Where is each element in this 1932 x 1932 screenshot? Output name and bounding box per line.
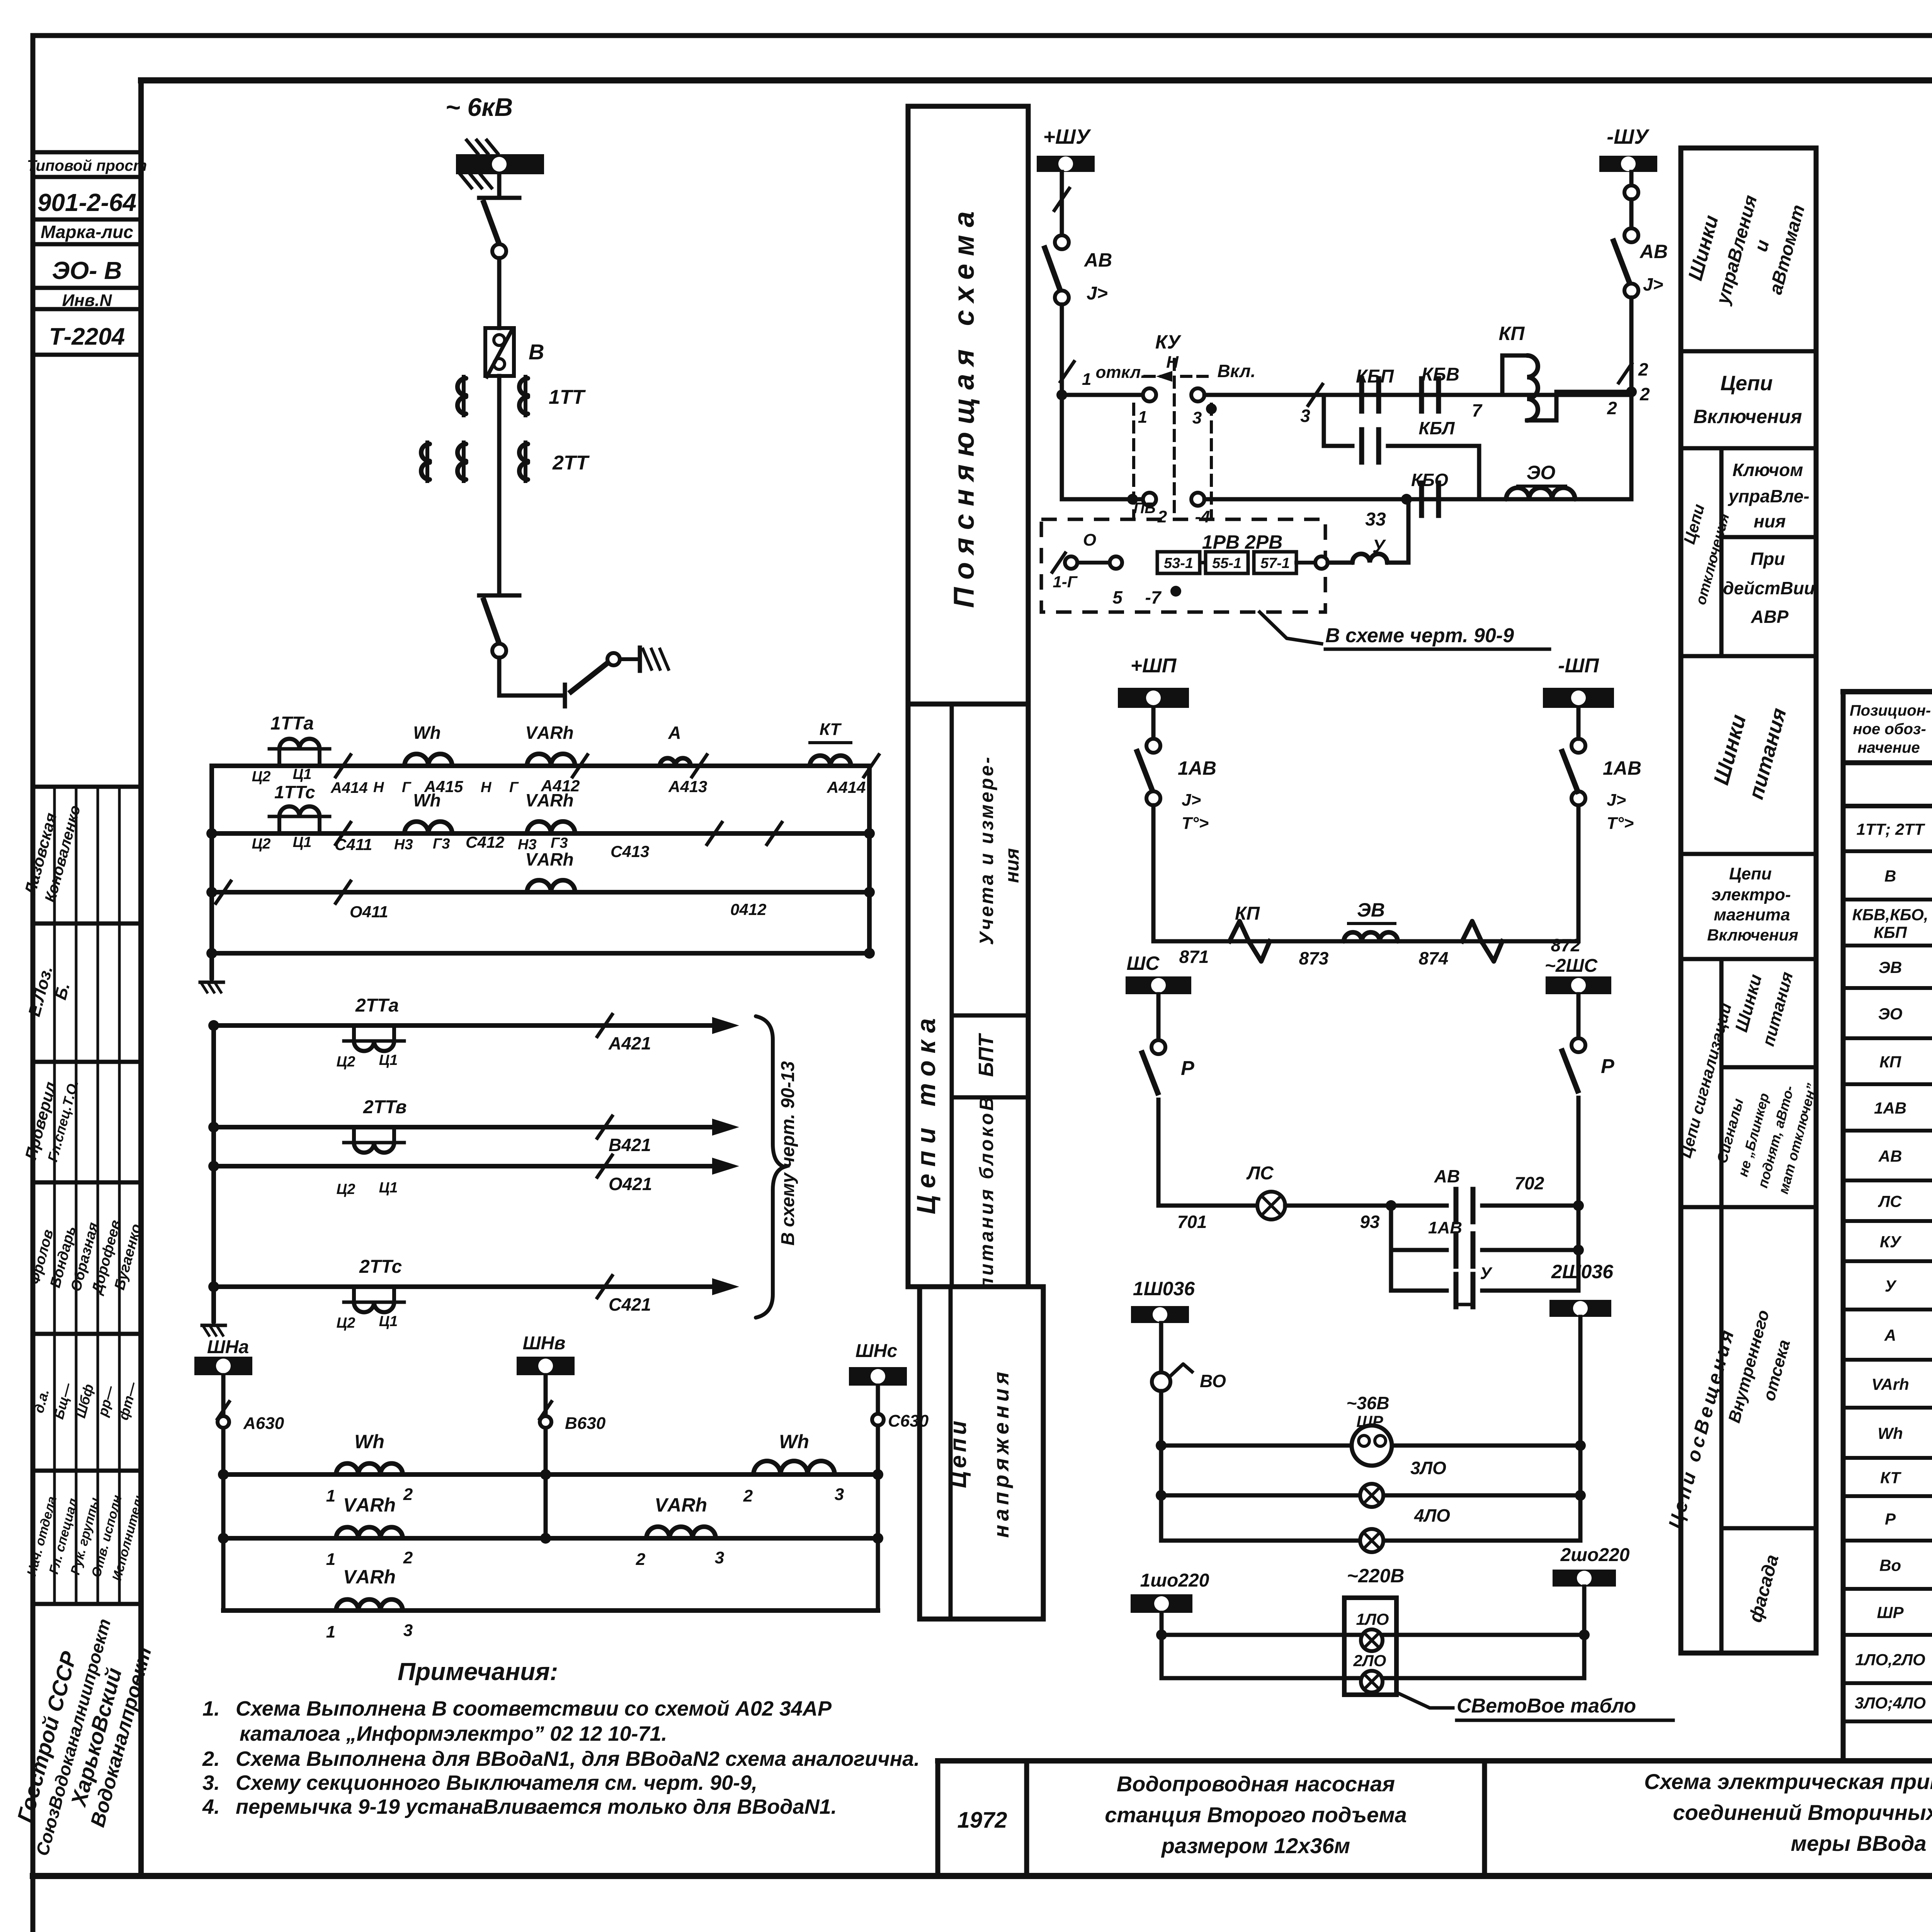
svg-text:А630: А630: [243, 1414, 284, 1433]
svg-text:2ТТс: 2ТТс: [359, 1257, 402, 1277]
svg-text:1: 1: [326, 1550, 335, 1569]
svg-text:ШНв: ШНв: [523, 1333, 566, 1354]
svg-text:При: При: [1750, 549, 1785, 569]
svg-text:872: 872: [1551, 935, 1581, 955]
svg-text:С630: С630: [888, 1412, 929, 1430]
svg-text:ЭО: ЭО: [1527, 462, 1556, 483]
svg-text:1ЛО: 1ЛО: [1356, 1610, 1389, 1628]
svg-text:ЭО: ЭО: [1878, 1005, 1903, 1023]
svg-text:Водопроводная насосная: Водопроводная насосная: [1117, 1772, 1395, 1796]
svg-text:ЭО- В: ЭО- В: [52, 257, 122, 284]
svg-text:~2ШС: ~2ШС: [1545, 956, 1598, 976]
svg-text:4.: 4.: [202, 1795, 220, 1818]
svg-text:Wh: Wh: [354, 1431, 384, 1452]
svg-text:КП: КП: [1235, 903, 1260, 924]
svg-text:2.: 2.: [202, 1747, 220, 1770]
svg-text:КТ: КТ: [1880, 1469, 1901, 1487]
svg-text:напряжения: напряжения: [989, 1368, 1013, 1538]
svg-text:Wh: Wh: [779, 1431, 809, 1452]
svg-text:-ШП: -ШП: [1558, 655, 1599, 677]
svg-text:В: В: [1884, 867, 1896, 885]
svg-text:VArh: VArh: [1871, 1375, 1909, 1393]
svg-text:2: 2: [403, 1548, 413, 1567]
svg-text:перемычка 9-19 устанаВливает: перемычка 9-19 устанаВливается только дл…: [236, 1795, 837, 1818]
svg-text:J>: J>: [1182, 791, 1201, 810]
svg-text:0412: 0412: [730, 900, 766, 918]
svg-text:3: 3: [403, 1621, 413, 1640]
svg-text:4ЛО: 4ЛО: [1414, 1505, 1450, 1526]
svg-text:2: 2: [1639, 384, 1650, 404]
svg-text:1972: 1972: [957, 1808, 1007, 1833]
svg-text:КП: КП: [1879, 1053, 1901, 1071]
svg-text:VАRh: VАRh: [525, 723, 573, 743]
svg-text:В: В: [529, 340, 544, 364]
svg-text:Схему секционного Выключател: Схему секционного Выключателя см. черт. …: [236, 1771, 757, 1794]
svg-text:~220В: ~220В: [1347, 1565, 1405, 1587]
svg-text:J>: J>: [1087, 283, 1108, 304]
svg-text:3.: 3.: [202, 1771, 220, 1794]
svg-text:ВО: ВО: [1200, 1371, 1226, 1391]
svg-text:1: 1: [1082, 370, 1091, 389]
svg-text:В схеме черт. 90-9: В схеме черт. 90-9: [1325, 624, 1514, 647]
svg-text:КБВ: КБВ: [1422, 364, 1459, 385]
svg-text:АВ: АВ: [1639, 241, 1668, 262]
svg-text:А413: А413: [668, 777, 707, 796]
svg-text:С421: С421: [609, 1294, 651, 1315]
svg-text:2ТТа: 2ТТа: [355, 995, 399, 1016]
svg-text:ния: ния: [1001, 848, 1023, 883]
svg-text:БПТ: БПТ: [975, 1033, 998, 1077]
svg-text:ШР: ШР: [1877, 1604, 1904, 1622]
svg-text:А421: А421: [608, 1033, 651, 1053]
svg-text:Р: Р: [1181, 1057, 1194, 1080]
svg-text:Ц1: Ц1: [379, 1313, 398, 1330]
svg-text:АВ: АВ: [1434, 1166, 1460, 1186]
svg-text:питания блокоВ: питания блокоВ: [976, 1095, 997, 1290]
svg-text:1Ш036: 1Ш036: [1133, 1278, 1195, 1299]
svg-text:Р: Р: [1885, 1510, 1896, 1528]
svg-text:1: 1: [326, 1622, 335, 1641]
svg-text:Т-2204: Т-2204: [49, 323, 125, 350]
svg-text:1ТТс: 1ТТс: [274, 782, 315, 802]
svg-text:У: У: [1885, 1277, 1897, 1295]
svg-text:КБЛ: КБЛ: [1418, 418, 1455, 438]
svg-text:Типовой прост: Типовой прост: [27, 157, 147, 174]
svg-text:ШС: ШС: [1126, 952, 1160, 974]
svg-text:874: 874: [1419, 948, 1449, 968]
svg-text:Н: Н: [481, 779, 492, 796]
svg-text:С412: С412: [466, 833, 504, 851]
svg-text:О: О: [1083, 531, 1096, 549]
svg-text:Ц1: Ц1: [293, 834, 312, 850]
svg-text:2: 2: [1607, 398, 1617, 418]
svg-text:VАRh: VАRh: [525, 790, 573, 810]
svg-text:Цепи: Цепи: [1720, 372, 1772, 395]
svg-text:Ц1: Ц1: [379, 1052, 398, 1068]
svg-text:ШНс: ШНс: [855, 1341, 897, 1361]
svg-text:магнита: магнита: [1714, 905, 1790, 924]
svg-text:2ТТв: 2ТТв: [363, 1097, 407, 1117]
svg-text:Ц1: Ц1: [379, 1180, 398, 1196]
svg-text:J>: J>: [1607, 791, 1626, 810]
svg-text:Ц1: Ц1: [293, 766, 312, 782]
svg-text:~ 6кВ: ~ 6кВ: [446, 93, 513, 121]
svg-text:3ЛО: 3ЛО: [1410, 1458, 1446, 1478]
svg-text:О411: О411: [350, 903, 388, 921]
svg-text:А: А: [1884, 1326, 1896, 1344]
svg-text:А414: А414: [827, 778, 866, 796]
svg-text:В схему черт. 90-13: В схему черт. 90-13: [778, 1061, 798, 1246]
svg-text:1РВ 2РВ: 1РВ 2РВ: [1202, 531, 1282, 553]
svg-text:Схема электрическая принципи: Схема электрическая принципиальная: [1644, 1769, 1932, 1794]
svg-text:-4: -4: [1195, 507, 1210, 526]
svg-text:А414: А414: [330, 779, 368, 796]
svg-text:2: 2: [636, 1550, 646, 1569]
svg-text:Ц2: Ц2: [337, 1054, 355, 1070]
svg-text:Марка-лис: Марка-лис: [41, 222, 133, 242]
svg-text:53-1: 53-1: [1164, 555, 1193, 571]
svg-text:Цепи: Цепи: [945, 1418, 971, 1488]
svg-text:упраВле-: упраВле-: [1728, 486, 1810, 506]
svg-text:57-1: 57-1: [1260, 555, 1290, 571]
svg-text:ЛС: ЛС: [1246, 1163, 1274, 1184]
svg-text:Цепи: Цепи: [1729, 864, 1772, 883]
svg-text:Wh: Wh: [1878, 1424, 1903, 1442]
svg-text:В630: В630: [565, 1414, 606, 1433]
svg-text:1АВ: 1АВ: [1874, 1099, 1906, 1117]
svg-text:2: 2: [403, 1485, 413, 1504]
svg-text:У: У: [1480, 1264, 1493, 1283]
svg-text:33: 33: [1365, 509, 1386, 530]
svg-text:1: 1: [326, 1486, 335, 1505]
svg-text:Н: Н: [1166, 353, 1179, 372]
svg-text:ПБ: ПБ: [1133, 500, 1155, 517]
svg-text:ШНа: ШНа: [207, 1337, 249, 1357]
svg-text:Схема Выполнена В соответств: Схема Выполнена В соответствии со схемой…: [236, 1697, 832, 1720]
svg-text:КБО: КБО: [1411, 470, 1448, 490]
svg-text:1ТТ; 2ТТ: 1ТТ; 2ТТ: [1857, 820, 1925, 838]
svg-text:901-2-64: 901-2-64: [37, 189, 136, 216]
svg-text:1.: 1.: [202, 1697, 220, 1720]
svg-text:Н: Н: [373, 779, 384, 796]
svg-text:КУ: КУ: [1880, 1233, 1902, 1251]
svg-text:Т°>: Т°>: [1182, 814, 1209, 833]
svg-text:3: 3: [715, 1548, 724, 1567]
svg-text:АВ: АВ: [1878, 1147, 1902, 1165]
svg-text:3: 3: [1192, 408, 1202, 427]
svg-text:КУ: КУ: [1155, 331, 1182, 353]
svg-text:+ШП: +ШП: [1131, 655, 1177, 677]
svg-text:откл.: откл.: [1096, 363, 1146, 382]
svg-text:КТ: КТ: [820, 720, 842, 739]
svg-text:Включения: Включения: [1693, 406, 1802, 427]
svg-text:А: А: [668, 723, 681, 743]
svg-text:Поясняющая схема: Поясняющая схема: [948, 204, 980, 608]
svg-text:АВР: АВР: [1750, 607, 1788, 627]
svg-text:Цепи тока: Цепи тока: [912, 1011, 941, 1214]
svg-text:Wh: Wh: [413, 723, 441, 743]
svg-text:2: 2: [1157, 507, 1167, 526]
svg-text:каталога „Информэлектро” 02 1: каталога „Информэлектро” 02 12 10-71.: [240, 1722, 667, 1745]
svg-text:Ц2: Ц2: [337, 1315, 355, 1331]
svg-text:702: 702: [1515, 1173, 1544, 1193]
svg-text:АВ: АВ: [1083, 249, 1112, 271]
svg-text:ЭВ: ЭВ: [1879, 958, 1902, 976]
svg-text:Ц2: Ц2: [252, 836, 271, 852]
svg-text:1АВ: 1АВ: [1428, 1218, 1462, 1237]
svg-text:Т°>: Т°>: [1607, 814, 1634, 833]
svg-text:3ЛО;4ЛО: 3ЛО;4ЛО: [1855, 1694, 1926, 1712]
svg-text:VАRh: VАRh: [525, 849, 573, 869]
svg-text:7: 7: [1472, 400, 1483, 420]
svg-text:КБП: КБП: [1874, 923, 1907, 942]
svg-text:5: 5: [1112, 587, 1123, 607]
svg-text:-ШУ: -ШУ: [1607, 125, 1650, 148]
svg-text:Ц2: Ц2: [252, 769, 271, 785]
svg-text:СВетоВое табло: СВетоВое табло: [1457, 1695, 1636, 1717]
svg-text:1: 1: [1138, 408, 1147, 427]
svg-text:У: У: [1372, 536, 1386, 557]
svg-text:-7: -7: [1145, 587, 1162, 607]
svg-text:+ШУ: +ШУ: [1043, 125, 1091, 148]
svg-text:ния: ния: [1754, 511, 1786, 531]
svg-text:станция Второго подъема: станция Второго подъема: [1105, 1803, 1407, 1827]
svg-text:В421: В421: [609, 1135, 651, 1155]
svg-text:ное обоз-: ное обоз-: [1853, 721, 1926, 738]
svg-text:Р: Р: [1601, 1055, 1614, 1078]
svg-text:1АВ: 1АВ: [1603, 757, 1641, 779]
svg-text:С413: С413: [611, 842, 649, 861]
svg-text:соединений Вторичных цепей: соединений Вторичных цепей ка-: [1673, 1800, 1932, 1825]
svg-text:2Ш036: 2Ш036: [1551, 1261, 1614, 1282]
svg-text:3: 3: [835, 1485, 844, 1504]
svg-text:Г3: Г3: [551, 835, 568, 851]
svg-text:93: 93: [1360, 1212, 1380, 1232]
svg-text:1-Г: 1-Г: [1053, 573, 1078, 591]
svg-text:ЛС: ЛС: [1878, 1192, 1902, 1211]
svg-text:Включения: Включения: [1707, 926, 1798, 944]
svg-text:С411: С411: [335, 835, 372, 854]
svg-text:начение: начение: [1857, 739, 1920, 756]
svg-text:2: 2: [1638, 359, 1648, 379]
svg-text:1ТТ: 1ТТ: [549, 386, 586, 408]
svg-text:Учета и измере-: Учета и измере-: [976, 755, 997, 945]
svg-text:Г3: Г3: [433, 836, 450, 852]
svg-text:Г: Г: [509, 779, 519, 796]
svg-text:дейстВии: дейстВии: [1723, 578, 1815, 598]
svg-text:1ТТа: 1ТТа: [270, 713, 314, 734]
svg-text:КП: КП: [1499, 323, 1525, 344]
svg-text:VАRh: VАRh: [655, 1494, 707, 1516]
svg-text:1шо220: 1шо220: [1140, 1570, 1209, 1591]
svg-text:Позицион-: Позицион-: [1850, 702, 1931, 719]
svg-text:2шо220: 2шо220: [1560, 1545, 1630, 1565]
svg-text:Г: Г: [402, 779, 412, 796]
svg-text:871: 871: [1179, 947, 1209, 967]
svg-text:2ЛО: 2ЛО: [1353, 1651, 1386, 1670]
svg-text:Wh: Wh: [413, 790, 441, 810]
svg-text:701: 701: [1177, 1212, 1207, 1232]
svg-text:873: 873: [1299, 948, 1329, 968]
svg-text:размером 12х36м: размером 12х36м: [1161, 1833, 1350, 1858]
svg-text:КБП: КБП: [1356, 366, 1394, 387]
svg-text:Во: Во: [1879, 1556, 1901, 1575]
svg-text:меры ВВода: меры ВВода: [1791, 1831, 1926, 1855]
svg-text:3: 3: [1300, 406, 1310, 426]
svg-text:КБВ,КБО,: КБВ,КБО,: [1852, 906, 1929, 924]
svg-text:VАRh: VАRh: [343, 1494, 396, 1516]
svg-text:55-1: 55-1: [1212, 555, 1242, 571]
svg-text:1ЛО,2ЛО: 1ЛО,2ЛО: [1855, 1651, 1925, 1669]
svg-text:О421: О421: [609, 1174, 652, 1194]
svg-text:~36В: ~36В: [1346, 1393, 1389, 1413]
svg-text:Вкл.: Вкл.: [1217, 361, 1255, 381]
svg-text:ЭВ: ЭВ: [1357, 899, 1385, 921]
svg-text:Схема Выполнена для ВВодаN1: Схема Выполнена для ВВодаN1, для ВВодаN2…: [236, 1747, 920, 1770]
svg-text:ШР: ШР: [1356, 1412, 1383, 1430]
svg-text:Н3: Н3: [394, 837, 413, 853]
svg-text:1АВ: 1АВ: [1178, 757, 1216, 779]
svg-text:VАRh: VАRh: [343, 1566, 396, 1588]
svg-text:Инв.N: Инв.N: [62, 291, 112, 310]
svg-text:2ТТ: 2ТТ: [552, 452, 590, 474]
svg-text:электро-: электро-: [1711, 885, 1791, 904]
svg-text:Ключом: Ключом: [1733, 460, 1803, 480]
svg-text:Примечания:: Примечания:: [398, 1658, 558, 1685]
svg-text:Ц2: Ц2: [337, 1181, 355, 1197]
svg-text:2: 2: [743, 1486, 753, 1505]
svg-text:J>: J>: [1643, 274, 1663, 294]
